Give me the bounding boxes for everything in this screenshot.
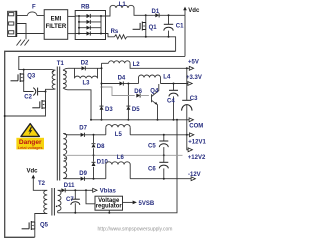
diode D7: [68, 134, 79, 136]
capacitor C1: [168, 15, 170, 24]
svg-text:EMI: EMI: [51, 16, 62, 22]
capacitor C5: [163, 135, 165, 141]
svg-text:+12V1: +12V1: [188, 140, 206, 146]
svg-text:F: F: [32, 5, 36, 11]
svg-text:Vdc: Vdc: [27, 169, 39, 175]
svg-text:regulator: regulator: [96, 204, 123, 210]
svg-text:http://www.smpspowersupply.com: http://www.smpspowersupply.com: [98, 226, 173, 232]
diode D3: [98, 104, 106, 111]
T1 core: [56, 67, 58, 181]
COM wire: [91, 119, 187, 121]
node Q1 drain: [145, 14, 147, 16]
svg-text:D8: D8: [97, 144, 105, 150]
primary ground bus: [5, 51, 176, 237]
wire L4 to +3.3V: [161, 83, 193, 85]
capacitor C2: [33, 88, 36, 96]
wire Vdc rail down: [184, 15, 186, 56]
wires EMI to bridge: [68, 15, 76, 17]
+Vdc bus: [19, 56, 185, 69]
svg-text:L6: L6: [117, 155, 125, 161]
capacitor C7: [74, 189, 76, 191]
+12V2 branch: [186, 134, 188, 136]
T1 secondary B 12V winding: [63, 133, 66, 154]
diode D5: [127, 84, 129, 120]
svg-text:C2: C2: [24, 94, 32, 100]
svg-text:+3.3V: +3.3V: [186, 75, 202, 81]
sec B bottom lead: [63, 178, 68, 180]
capacitor C3 on output rail: [186, 68, 188, 100]
svg-text:C1: C1: [176, 23, 184, 29]
svg-text:D3: D3: [105, 107, 113, 113]
svg-text:D11: D11: [64, 183, 75, 189]
resistor Rs: [106, 34, 115, 37]
Vbias output: [85, 189, 87, 191]
T1 secondary A: [63, 70, 66, 88]
transistor Q2: [32, 100, 45, 109]
transistor Q3: [11, 73, 24, 82]
svg-text:RB: RB: [81, 5, 90, 11]
diode D4: [102, 83, 120, 85]
sec A bottom return: [63, 88, 91, 120]
diode D11: [61, 188, 65, 192]
svg-text:FILTER: FILTER: [46, 24, 67, 30]
inductor L5: [105, 127, 107, 135]
svg-text:Vdc: Vdc: [188, 8, 200, 14]
inductor L2: [102, 62, 109, 64]
svg-text:-12V: -12V: [188, 172, 201, 178]
diode D1: [155, 13, 159, 17]
svg-text:C4: C4: [167, 99, 175, 105]
+5V output: [189, 66, 193, 70]
transistor Q4: [151, 94, 153, 102]
T2 secondary top lead: [58, 189, 62, 191]
inductor L6: [105, 165, 107, 179]
svg-text:L2: L2: [133, 62, 141, 68]
fuse F: [28, 12, 37, 16]
EMI filter box: [44, 10, 67, 40]
svg-text:L4: L4: [163, 74, 171, 80]
svg-text:Q5: Q5: [40, 223, 49, 229]
AC plug P1: [8, 11, 17, 37]
svg-text:D9: D9: [79, 171, 87, 177]
wire L5 to +12V1: [130, 134, 189, 136]
wire junction to voltage regulator: [86, 190, 95, 204]
svg-text:D4: D4: [118, 76, 126, 82]
node bus +5V rect: [101, 63, 103, 120]
sec A top lead to D2 wire: [63, 68, 68, 70]
svg-text:C6: C6: [148, 166, 156, 172]
COM return bus down: [176, 119, 178, 121]
svg-text:D7: D7: [79, 125, 87, 131]
diode D2: [68, 67, 80, 69]
transistor Q5: [22, 221, 35, 230]
svg-text:+5V: +5V: [188, 60, 199, 66]
wire L6 to -12V: [130, 178, 191, 180]
diode D10: [93, 155, 95, 178]
svg-text:Q4: Q4: [150, 89, 159, 95]
saturable inductor L3: [75, 68, 98, 78]
5VSB output: [123, 201, 133, 203]
svg-text:Vbias: Vbias: [100, 189, 117, 195]
svg-text:Letal voltages: Letal voltages: [18, 145, 43, 150]
svg-text:L3: L3: [83, 80, 91, 86]
wire plug line to fuse: [16, 15, 27, 17]
svg-text:D1: D1: [152, 9, 160, 15]
T1 primary winding: [46, 70, 56, 101]
gray control branch to D6: [102, 87, 135, 96]
regulator ground lead: [108, 210, 110, 213]
inductor L1: [110, 5, 134, 8]
bridge rectifier RB box: [75, 11, 105, 40]
inductor L4: [138, 78, 140, 84]
svg-text:+12V2: +12V2: [188, 155, 206, 161]
Danger sign: [16, 124, 44, 150]
bridge diodes: [75, 14, 105, 36]
svg-text:COM: COM: [189, 124, 203, 130]
svg-text:L1: L1: [119, 2, 127, 8]
capacitor C4: [173, 84, 175, 91]
svg-text:D2: D2: [81, 61, 89, 67]
svg-text:5VSB: 5VSB: [139, 201, 155, 207]
svg-text:Q3: Q3: [27, 74, 36, 80]
transistor Q1: [145, 15, 147, 22]
wire plug earth pin: [16, 24, 26, 40]
svg-text:Rs: Rs: [111, 29, 119, 35]
chassis ground: [17, 40, 30, 46]
svg-text:C3: C3: [190, 96, 198, 102]
diode D9: [68, 178, 79, 180]
svg-text:Q1: Q1: [149, 25, 158, 31]
T2 primary bottom to Q5: [35, 214, 47, 223]
diode D8: [93, 135, 95, 156]
sec B top lead: [63, 133, 68, 134]
svg-text:D6: D6: [134, 89, 142, 95]
wire fuse to EMI filter: [37, 15, 44, 17]
wire L1 to D1 node: [134, 8, 154, 15]
svg-text:C5: C5: [148, 143, 156, 149]
svg-text:T1: T1: [57, 61, 65, 67]
svg-text:T2: T2: [38, 181, 46, 187]
svg-text:D5: D5: [132, 107, 140, 113]
wire L2 to +5V: [130, 63, 189, 68]
svg-text:L5: L5: [115, 132, 123, 138]
node +Vdc: [184, 10, 186, 16]
diode D6: [136, 93, 140, 97]
wire Rs to ground corner: [127, 37, 176, 52]
voltage regulator box: [95, 196, 123, 210]
capacitor C6: [163, 155, 165, 162]
wire plug neutral to EMI filter: [16, 33, 44, 35]
svg-text:C7: C7: [66, 197, 74, 203]
wire bridge to L1: [106, 8, 111, 16]
center tap gray wire: [67, 154, 183, 156]
